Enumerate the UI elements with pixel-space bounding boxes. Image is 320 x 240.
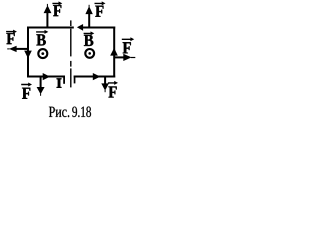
current arrowhead on bottom-right wire pointing right <box>93 73 101 80</box>
force arrow F right <box>115 56 126 58</box>
force arrow F left <box>15 48 28 50</box>
vector bar of F left <box>6 30 17 34</box>
vector bar of B left <box>36 30 48 34</box>
lead stub left <box>63 76 65 84</box>
label current I <box>57 79 62 88</box>
field symbol B out of page, right loop <box>85 49 94 58</box>
caption <box>49 107 69 117</box>
label F up-right <box>95 6 103 17</box>
label F down-left <box>22 88 30 99</box>
label F up-left <box>53 5 61 16</box>
vector bar of F right <box>122 37 134 41</box>
axis of symmetry dashed line <box>70 20 71 87</box>
lead stub right <box>74 76 76 84</box>
label F right <box>123 42 131 53</box>
force arrow F up-right <box>88 14 90 28</box>
label B right <box>84 35 93 46</box>
wire bottom-left segment <box>27 76 65 78</box>
wire left edge <box>27 27 29 78</box>
field symbol B out of page, left loop <box>38 49 47 58</box>
vector bar of F down-right <box>108 81 118 85</box>
label B left <box>36 34 45 45</box>
label F left <box>6 33 14 44</box>
wire right edge <box>113 27 115 78</box>
force arrow F up-left <box>46 13 48 28</box>
force arrow F down-left <box>40 77 42 89</box>
wire top-left segment <box>27 27 74 29</box>
vector bar of F up-right <box>95 1 106 5</box>
current arrowhead on right wire pointing up <box>110 48 118 56</box>
current arrowhead on bottom-left wire pointing right <box>43 73 50 80</box>
vector bar of F down-left <box>21 83 32 87</box>
current arrowhead on left wire pointing down <box>24 51 32 59</box>
vector bar of B right <box>84 31 95 35</box>
vector bar of F up-left <box>52 1 62 5</box>
label F down-right <box>108 87 116 98</box>
wire top-right segment <box>83 27 116 29</box>
force arrow F down-right <box>104 77 106 85</box>
wire bottom-right segment <box>74 76 116 78</box>
current arrowhead on top wire pointing left <box>77 24 83 31</box>
